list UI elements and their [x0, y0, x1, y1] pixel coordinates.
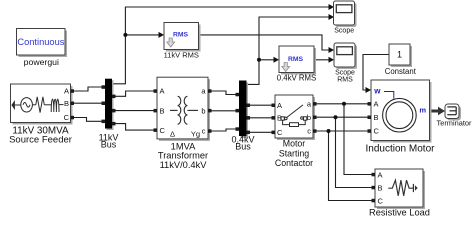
svg-text:11kV RMS: 11kV RMS: [164, 51, 199, 60]
svg-text:RMS: RMS: [337, 76, 353, 83]
svg-text:Resistive Load: Resistive Load: [369, 208, 430, 218]
svg-text:c: c: [202, 127, 206, 136]
svg-text:11kV/0.4kV: 11kV/0.4kV: [160, 160, 208, 170]
svg-text:Yg: Yg: [191, 130, 200, 139]
svg-text:0.4kV RMS: 0.4kV RMS: [277, 74, 316, 83]
svg-text:m: m: [419, 106, 426, 115]
svg-text:A: A: [378, 170, 383, 179]
svg-text:C: C: [64, 113, 70, 122]
svg-text:Scope: Scope: [334, 28, 354, 35]
svg-text:A: A: [64, 87, 69, 96]
svg-text:C: C: [374, 126, 380, 135]
svg-text:b: b: [201, 106, 205, 115]
svg-text:Constant: Constant: [385, 67, 417, 76]
svg-text:powergui: powergui: [24, 57, 59, 67]
svg-text:b: b: [307, 113, 311, 122]
svg-text:Continuous: Continuous: [17, 37, 64, 47]
svg-text:Terminator: Terminator: [437, 119, 472, 128]
svg-text:w: w: [373, 86, 381, 95]
svg-text:Starting: Starting: [279, 148, 309, 158]
svg-text:A: A: [277, 101, 282, 110]
svg-text:Induction Motor: Induction Motor: [366, 144, 436, 155]
svg-text:Contactor: Contactor: [275, 158, 313, 168]
svg-text:1: 1: [397, 50, 402, 60]
svg-text:B: B: [277, 114, 282, 123]
svg-text:B: B: [378, 183, 383, 192]
svg-text:B: B: [160, 106, 165, 115]
svg-text:C: C: [160, 126, 166, 135]
svg-text:C: C: [378, 196, 384, 205]
svg-text:A: A: [374, 100, 379, 109]
svg-text:Motor: Motor: [283, 139, 306, 149]
svg-text:Δ: Δ: [170, 130, 175, 139]
svg-text:RMS: RMS: [173, 32, 189, 39]
svg-text:C: C: [277, 128, 283, 137]
svg-text:c: c: [307, 126, 311, 135]
svg-text:B: B: [374, 113, 379, 122]
svg-text:Bus: Bus: [101, 140, 117, 150]
svg-text:Bus: Bus: [235, 142, 251, 152]
svg-text:Source Feeder: Source Feeder: [9, 134, 72, 145]
svg-text:B: B: [64, 99, 69, 108]
svg-text:RMS: RMS: [288, 56, 304, 63]
svg-text:A: A: [160, 87, 165, 96]
